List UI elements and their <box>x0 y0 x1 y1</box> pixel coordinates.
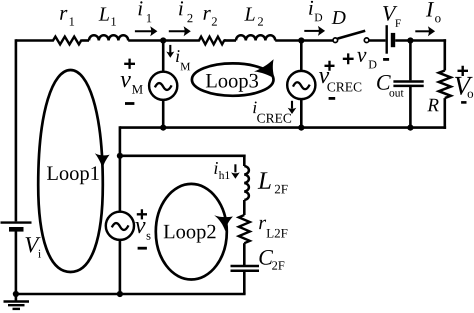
wire rL2F to C2F <box>243 243 246 265</box>
diode D switch lever <box>338 31 366 39</box>
loop Loop1 oval <box>38 70 103 272</box>
current arrow iD <box>304 30 319 32</box>
diode D right contact <box>364 38 369 43</box>
source vCREC top lead <box>300 41 303 71</box>
label L1 <box>99 8 109 21</box>
capacitor Cout bottom lead <box>409 87 412 128</box>
source vCREC circle <box>287 71 315 99</box>
current arrow i2 <box>169 30 185 32</box>
current arrow iM <box>169 45 171 53</box>
wire VF to top right corner <box>395 39 446 42</box>
node junction ground corner <box>13 291 19 297</box>
battery Vi short plate <box>9 227 24 232</box>
node junction top of vCREC branch <box>298 37 304 43</box>
current arrow i1 <box>135 30 152 32</box>
label vD <box>357 52 366 62</box>
label C2F <box>259 250 273 265</box>
resistor rL2F <box>239 215 250 243</box>
current arrow iCREC <box>291 101 293 109</box>
diode D as open switch: left contact <box>333 38 338 43</box>
node junction vCREC bottom <box>298 125 304 131</box>
source vCREC tilde <box>293 82 310 89</box>
label i2 <box>179 1 183 15</box>
capacitor Cout top lead <box>409 41 412 81</box>
label R <box>427 99 438 111</box>
label vs <box>135 222 145 233</box>
vM branch top lead <box>162 41 165 72</box>
wire R bottom <box>443 98 446 129</box>
current arrow Io <box>415 30 429 32</box>
wire switch to VF <box>369 39 385 42</box>
label Cout <box>377 75 391 90</box>
label vs plus <box>137 209 147 219</box>
wire L2 to switch <box>275 39 333 42</box>
node junction Cout bottom <box>407 125 413 131</box>
label Vi <box>26 237 41 252</box>
inductor L1 <box>89 35 128 40</box>
label ih1 <box>214 162 217 174</box>
label Vo plus <box>458 66 469 76</box>
label r2 <box>203 10 210 20</box>
source vM tilde <box>155 83 172 90</box>
wire r2 to L2 <box>224 39 237 42</box>
label vs minus <box>138 247 147 250</box>
label vD minus <box>383 58 389 61</box>
inductor L2 <box>236 35 275 40</box>
capacitor C2F bottom plate <box>231 269 260 272</box>
node junction vs bottom <box>117 291 123 297</box>
wire top left horizontal <box>16 39 52 42</box>
label Vo minus <box>461 101 466 104</box>
bottom wire <box>16 293 246 296</box>
label vM plus <box>124 59 135 69</box>
wire L2F to rL2F <box>243 200 246 215</box>
label L2F <box>258 172 271 188</box>
wire M2 corner down to L2F <box>243 155 246 167</box>
capacitor Cout top plate <box>393 80 423 83</box>
node junction top of Cout branch <box>407 37 413 43</box>
current arrow ih1 <box>234 164 236 172</box>
ground bar 3 <box>13 308 21 310</box>
wire right edge down to R <box>443 39 446 70</box>
ground bar 1 <box>4 300 30 302</box>
loop Loop3 ellipse <box>192 63 274 95</box>
node junction of M2 branch <box>117 153 123 159</box>
resistor R <box>439 71 451 99</box>
loop Loop3 direction arrow <box>254 59 275 78</box>
battery Vi long plate <box>1 221 32 223</box>
label vM <box>121 76 131 87</box>
wire r1 to L1 <box>82 39 89 42</box>
label iM <box>176 50 179 62</box>
label Loop2 <box>164 225 216 243</box>
resistor r1 <box>52 37 82 45</box>
battery VF short plate <box>391 33 395 47</box>
vM branch bottom lead <box>162 100 165 128</box>
label vCREC <box>319 72 329 83</box>
wire left vertical below Vi <box>15 231 18 294</box>
wire L1 to r2 <box>128 39 198 42</box>
source vs tilde <box>112 223 129 230</box>
label rL2F <box>259 220 266 229</box>
label r1 <box>60 10 67 20</box>
wire V1 vertical from M1 corner to vs <box>119 126 122 212</box>
label iCREC <box>253 102 256 114</box>
source vCREC bottom lead <box>300 99 303 128</box>
wire left vertical above Vi <box>15 39 18 221</box>
wire C2F to bottom wire <box>243 272 246 294</box>
label Io <box>426 2 434 16</box>
loop Loop1 direction arrow <box>95 153 110 168</box>
node junction vM bottom <box>160 125 166 131</box>
label vCREC minus <box>329 97 336 100</box>
label D <box>332 11 346 24</box>
wire M2 horizontal <box>120 155 246 158</box>
loop Loop2 ellipse <box>156 184 227 280</box>
capacitor C2F top plate <box>231 265 260 268</box>
label vD plus <box>343 53 354 64</box>
label i1 <box>138 1 142 15</box>
label vCREC plus <box>325 61 335 71</box>
label iD <box>309 1 313 15</box>
label Vo <box>455 77 473 95</box>
node junction top of vM branch <box>160 37 166 43</box>
label L2 <box>244 8 254 21</box>
loop Loop2 direction arrow <box>214 215 233 231</box>
ground bar 2 <box>8 304 25 306</box>
capacitor Cout bottom plate <box>393 85 423 88</box>
source vs circle <box>106 212 134 240</box>
inductor L2F <box>244 166 249 200</box>
source vM circle <box>149 72 177 100</box>
battery VF long plate <box>386 25 388 54</box>
ground stub <box>15 294 18 302</box>
label Loop1 <box>47 166 99 184</box>
label vM minus <box>125 102 134 105</box>
resistor r2 <box>198 37 224 45</box>
wire middle bus M1 <box>120 126 446 129</box>
label Loop3 <box>206 74 258 92</box>
wire V1 vertical from vs to bottom <box>119 240 122 294</box>
label VF <box>383 6 397 21</box>
